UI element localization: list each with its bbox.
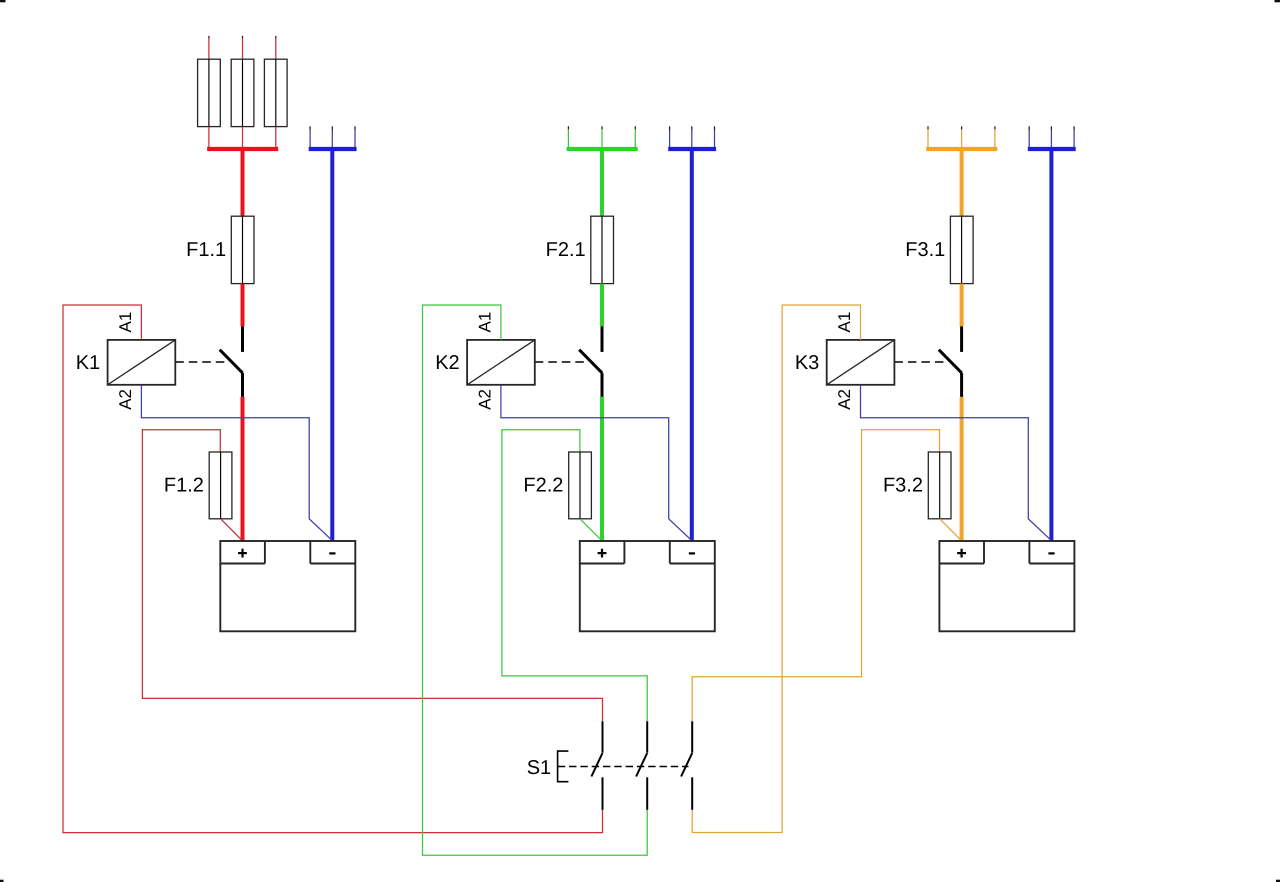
node DC- busbar section 2 bbox=[668, 147, 716, 151]
svg-text:K2: K2 bbox=[435, 352, 459, 374]
wire positive stub 1 section 2 bbox=[567, 126, 569, 129]
wire switch S1 contact 1 to fuse F1.2 bbox=[142, 430, 602, 722]
node DC- busbar section 1 bbox=[309, 147, 357, 151]
wire switch S1 contact 2 to fuse F2.2 bbox=[502, 430, 647, 722]
fuse F1.1 bbox=[186, 216, 254, 283]
svg-text:S1: S1 bbox=[527, 757, 551, 779]
wire negative stub 2 section 2 bbox=[691, 126, 693, 130]
wire DC- return busbar to battery - bbox=[1049, 149, 1053, 541]
wire fuse F2.2 to battery + bbox=[580, 519, 602, 541]
switch S1 contact 1 bbox=[591, 721, 602, 810]
svg-text:A2: A2 bbox=[116, 389, 135, 410]
wire switch S1 contact 3 to fuse F3.2 bbox=[692, 430, 939, 722]
wire positive stub 2 section 2 bbox=[601, 126, 603, 129]
svg-text:F3.1: F3.1 bbox=[905, 239, 945, 261]
svg-text:A1: A1 bbox=[835, 312, 854, 333]
fuse F2.2 bbox=[523, 452, 591, 519]
wire coil K3 A1 to switch S1 contact 3 bbox=[692, 305, 860, 833]
wire positive stub 3 section 2 bbox=[634, 126, 636, 129]
wire DC- return busbar to battery - bbox=[690, 149, 694, 541]
svg-text:A2: A2 bbox=[475, 389, 494, 410]
wire negative stub 2 section 1 bbox=[331, 126, 333, 130]
wire fuse F1.2 to battery + bbox=[221, 519, 243, 541]
switch S1 contact 3 bbox=[681, 721, 692, 810]
wire coil K1 A1 to switch S1 contact 1 bbox=[63, 305, 603, 833]
fuse F2.1 bbox=[546, 216, 614, 283]
battery 3 minus terminal mark bbox=[1048, 552, 1054, 554]
svg-text:F2.1: F2.1 bbox=[546, 239, 586, 261]
relay coil K1 bbox=[108, 340, 176, 385]
wire negative stub 1 section 1 bbox=[309, 126, 311, 130]
PV string fuse 2 bbox=[231, 36, 254, 148]
wire positive stub 3 section 3 bbox=[994, 126, 996, 129]
wire DC- return busbar to battery - bbox=[330, 149, 334, 541]
battery 2 minus terminal mark bbox=[689, 552, 695, 554]
relay coil K3 bbox=[827, 340, 895, 385]
battery 2 plus terminal mark bbox=[598, 549, 607, 558]
svg-text:A1: A1 bbox=[475, 312, 494, 333]
wire fuse F2.1 to contact K2 bbox=[600, 284, 604, 327]
switch S1 contact 2 bbox=[636, 721, 647, 810]
svg-text:A1: A1 bbox=[116, 312, 135, 333]
wire contact K1 to battery + bbox=[241, 397, 245, 541]
battery 1 minus terminal mark bbox=[329, 552, 335, 554]
wire feeder bus to fuse F3.1 bbox=[960, 149, 964, 216]
wire negative stub 3 section 3 bbox=[1073, 126, 1075, 130]
wire negative stub 1 section 2 bbox=[669, 126, 671, 130]
node DC+ busbar section 3 bbox=[926, 147, 997, 151]
wire feeder bus to fuse F2.1 bbox=[600, 149, 604, 216]
svg-text:F3.2: F3.2 bbox=[883, 475, 923, 497]
node DC- busbar section 3 bbox=[1028, 147, 1076, 151]
wire fuse F1.1 to contact K1 bbox=[241, 284, 245, 327]
PV string fuse 1 bbox=[198, 36, 221, 148]
battery 2 bbox=[580, 541, 715, 631]
wire feeder bus to fuse F1.1 bbox=[241, 149, 245, 216]
node DC+ busbar section 1 bbox=[207, 147, 278, 151]
wire negative stub 3 section 2 bbox=[714, 126, 716, 130]
switch S1 mechanical link (dashed) bbox=[558, 766, 689, 768]
relay contact K1 (NO) bbox=[220, 326, 243, 397]
PV string fuse 3 bbox=[264, 36, 287, 148]
wire fuse F3.2 to battery + bbox=[940, 519, 962, 541]
wire contact K3 to battery + bbox=[960, 397, 964, 541]
battery 3 bbox=[939, 541, 1074, 631]
mechanical link K1 (dashed) bbox=[175, 361, 229, 363]
svg-text:F1.2: F1.2 bbox=[164, 475, 204, 497]
fuse F1.2 bbox=[164, 452, 232, 519]
wire coil K2 A2 to battery - bbox=[501, 385, 692, 541]
fuse F3.1 bbox=[905, 216, 973, 283]
wire positive stub 2 section 3 bbox=[961, 126, 963, 129]
relay contact K2 (NO) bbox=[579, 326, 602, 397]
battery 1 bbox=[220, 541, 355, 631]
wire fuse F3.1 to contact K3 bbox=[960, 284, 964, 327]
svg-text:A2: A2 bbox=[835, 389, 854, 410]
node DC+ busbar section 2 bbox=[567, 147, 638, 151]
battery 3 plus terminal mark bbox=[957, 549, 966, 558]
wire coil K2 A1 to switch S1 contact 2 bbox=[423, 305, 648, 855]
svg-text:F1.1: F1.1 bbox=[186, 239, 226, 261]
wire coil K1 A2 to battery - bbox=[141, 385, 332, 541]
mechanical link K3 (dashed) bbox=[894, 361, 948, 363]
svg-text:K3: K3 bbox=[795, 352, 819, 374]
wire contact K2 to battery + bbox=[600, 397, 604, 541]
svg-text:K1: K1 bbox=[76, 352, 100, 374]
fuse F3.2 bbox=[883, 452, 951, 519]
svg-text:F2.2: F2.2 bbox=[523, 475, 563, 497]
wire coil K3 A2 to battery - bbox=[861, 385, 1052, 541]
switch S1 bracket bbox=[558, 751, 569, 782]
battery 1 plus terminal mark bbox=[238, 549, 247, 558]
wire negative stub 2 section 3 bbox=[1050, 126, 1052, 130]
mechanical link K2 (dashed) bbox=[535, 361, 589, 363]
relay contact K3 (NO) bbox=[939, 326, 962, 397]
wire negative stub 1 section 3 bbox=[1028, 126, 1030, 130]
wire negative stub 3 section 1 bbox=[354, 126, 356, 130]
wire positive stub 1 section 3 bbox=[927, 126, 929, 129]
relay coil K2 bbox=[467, 340, 535, 385]
